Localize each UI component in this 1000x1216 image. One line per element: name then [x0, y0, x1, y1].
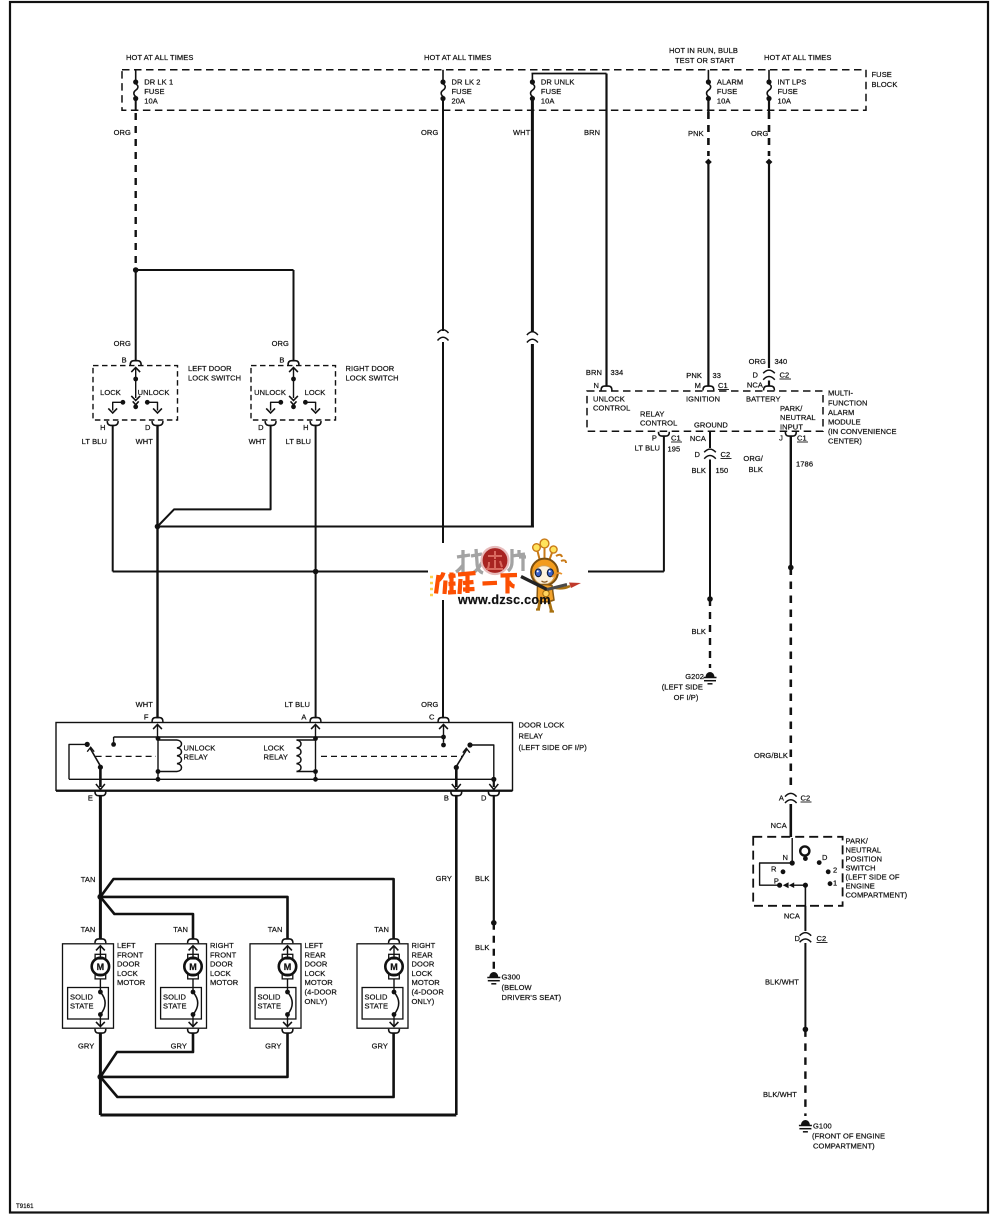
svg-text:WHT: WHT: [249, 437, 267, 446]
svg-text:BLK: BLK: [475, 874, 489, 883]
svg-text:FUSE: FUSE: [144, 87, 164, 96]
svg-text:TAN: TAN: [374, 925, 389, 934]
svg-text:1: 1: [833, 879, 837, 888]
svg-text:LT BLU: LT BLU: [635, 444, 660, 453]
svg-text:A: A: [779, 794, 784, 803]
svg-text:INT LPS: INT LPS: [778, 78, 807, 87]
svg-text:FUNCTION: FUNCTION: [828, 398, 868, 407]
svg-text:ALARM: ALARM: [828, 408, 854, 417]
svg-text:C1: C1: [671, 434, 681, 443]
svg-text:ORG: ORG: [751, 129, 768, 138]
svg-text:FUSE: FUSE: [778, 87, 798, 96]
svg-text:BLK: BLK: [692, 627, 706, 636]
svg-text:UNLOCK: UNLOCK: [254, 388, 286, 397]
svg-text:G202: G202: [685, 672, 704, 681]
svg-text:ORG/: ORG/: [743, 454, 763, 463]
svg-text:R: R: [771, 865, 777, 874]
svg-text:MOTOR: MOTOR: [412, 978, 441, 987]
svg-text:B: B: [122, 356, 127, 365]
svg-text:PNK: PNK: [686, 371, 702, 380]
svg-text:M: M: [284, 962, 292, 972]
svg-text:SOLID: SOLID: [365, 993, 388, 1002]
svg-text:M: M: [97, 962, 105, 972]
svg-text:RIGHT: RIGHT: [210, 941, 234, 950]
svg-text:NEUTRAL: NEUTRAL: [846, 846, 882, 855]
svg-text:(LEFT SIDE: (LEFT SIDE: [662, 683, 703, 692]
svg-text:BRN: BRN: [584, 128, 600, 137]
svg-text:P: P: [652, 434, 657, 443]
svg-text:CONTROL: CONTROL: [640, 419, 677, 428]
svg-text:20A: 20A: [452, 97, 466, 106]
svg-text:(FRONT OF ENGINE: (FRONT OF ENGINE: [812, 1132, 885, 1141]
svg-text:DOOR LOCK: DOOR LOCK: [519, 721, 565, 730]
svg-text:WHT: WHT: [513, 128, 531, 137]
svg-text:MOTOR: MOTOR: [210, 978, 239, 987]
svg-text:33: 33: [713, 371, 722, 380]
svg-text:RIGHT: RIGHT: [412, 941, 436, 950]
svg-text:COMPARTMENT): COMPARTMENT): [813, 1141, 875, 1150]
svg-text:REAR: REAR: [412, 950, 434, 959]
svg-text:CONTROL: CONTROL: [593, 404, 630, 413]
svg-text:150: 150: [716, 466, 729, 475]
svg-text:REAR: REAR: [305, 950, 327, 959]
svg-text:BRN: BRN: [586, 368, 602, 377]
svg-text:BLK: BLK: [692, 466, 706, 475]
svg-text:195: 195: [668, 445, 681, 454]
svg-text:LOCK: LOCK: [305, 969, 326, 978]
svg-text:TAN: TAN: [173, 925, 188, 934]
svg-text:(BELOW: (BELOW: [502, 983, 533, 992]
svg-text:C2: C2: [721, 450, 731, 459]
svg-text:N: N: [782, 853, 788, 862]
svg-text:10A: 10A: [778, 97, 792, 106]
svg-text:SOLID: SOLID: [163, 993, 186, 1002]
svg-text:FRONT: FRONT: [210, 950, 237, 959]
svg-text:LT BLU: LT BLU: [286, 437, 311, 446]
svg-text:FUSE: FUSE: [872, 70, 892, 79]
svg-text:340: 340: [775, 357, 788, 366]
svg-text:C2: C2: [801, 794, 811, 803]
svg-text:TAN: TAN: [81, 925, 96, 934]
svg-text:FRONT: FRONT: [117, 950, 144, 959]
svg-text:A: A: [301, 713, 306, 722]
svg-text:IGNITION: IGNITION: [686, 395, 720, 404]
svg-text:LOCK: LOCK: [264, 744, 285, 753]
svg-text:LOCK SWITCH: LOCK SWITCH: [188, 374, 241, 383]
svg-text:HOT AT ALL TIMES: HOT AT ALL TIMES: [126, 53, 193, 62]
svg-text:NCA: NCA: [771, 821, 787, 830]
svg-text:DRIVER'S SEAT): DRIVER'S SEAT): [502, 993, 562, 1002]
svg-text:E: E: [88, 794, 93, 803]
svg-text:STATE: STATE: [365, 1002, 389, 1011]
svg-text:LOCK: LOCK: [412, 969, 433, 978]
svg-text:D: D: [694, 450, 700, 459]
svg-text:FUSE: FUSE: [717, 87, 737, 96]
svg-text:GRY: GRY: [265, 1042, 281, 1051]
svg-text:HOT AT ALL TIMES: HOT AT ALL TIMES: [424, 53, 491, 62]
svg-text:(4-DOOR: (4-DOOR: [412, 988, 445, 997]
svg-text:RELAY: RELAY: [184, 753, 209, 762]
svg-text:ORG/BLK: ORG/BLK: [754, 751, 788, 760]
svg-text:NCA: NCA: [747, 381, 763, 390]
svg-text:UNLOCK: UNLOCK: [593, 395, 625, 404]
svg-text:WHT: WHT: [136, 700, 154, 709]
svg-text:NCA: NCA: [784, 912, 800, 921]
svg-text:D: D: [145, 423, 151, 432]
svg-text:DOOR: DOOR: [117, 960, 140, 969]
svg-text:TAN: TAN: [81, 875, 96, 884]
svg-text:RELAY: RELAY: [519, 732, 544, 741]
svg-text:SOLID: SOLID: [258, 993, 281, 1002]
svg-text:STATE: STATE: [163, 1002, 187, 1011]
svg-text:DR LK 2: DR LK 2: [452, 78, 481, 87]
svg-text:LEFT DOOR: LEFT DOOR: [188, 364, 232, 373]
svg-text:DOOR: DOOR: [412, 960, 435, 969]
svg-text:BLK/WHT: BLK/WHT: [765, 978, 799, 987]
svg-text:J: J: [779, 434, 783, 443]
svg-text:LEFT: LEFT: [305, 941, 324, 950]
svg-text:ENGINE: ENGINE: [846, 882, 875, 891]
svg-text:NCA: NCA: [690, 434, 706, 443]
svg-text:NEUTRAL: NEUTRAL: [780, 413, 816, 422]
svg-text:RELAY: RELAY: [640, 410, 665, 419]
svg-text:DOOR: DOOR: [305, 960, 328, 969]
svg-text:D: D: [258, 423, 264, 432]
svg-text:OF I/P): OF I/P): [674, 693, 699, 702]
svg-text:FUSE: FUSE: [541, 87, 561, 96]
svg-text:C: C: [429, 713, 435, 722]
svg-text:GRY: GRY: [78, 1042, 94, 1051]
svg-text:1786: 1786: [796, 460, 813, 469]
svg-text:D: D: [822, 853, 828, 862]
svg-text:(4-DOOR: (4-DOOR: [305, 988, 338, 997]
svg-text:PARK/: PARK/: [846, 837, 869, 846]
svg-text:TEST OR START: TEST OR START: [675, 56, 735, 65]
svg-text:STATE: STATE: [258, 1002, 282, 1011]
svg-text:LOCK: LOCK: [305, 388, 326, 397]
svg-text:334: 334: [611, 368, 624, 377]
svg-text:TAN: TAN: [268, 925, 283, 934]
svg-text:WHT: WHT: [136, 437, 154, 446]
svg-text:UNLOCK: UNLOCK: [184, 744, 216, 753]
svg-text:PARK/: PARK/: [780, 404, 803, 413]
svg-text:ORG: ORG: [421, 700, 438, 709]
svg-text:B: B: [279, 356, 284, 365]
svg-text:COMPARTMENT): COMPARTMENT): [846, 891, 908, 900]
svg-text:10A: 10A: [717, 97, 731, 106]
svg-text:ORG: ORG: [272, 339, 289, 348]
svg-text:LOCK: LOCK: [117, 969, 138, 978]
svg-text:C2: C2: [780, 371, 790, 380]
svg-text:ORG: ORG: [749, 357, 766, 366]
svg-text:ORG: ORG: [114, 339, 131, 348]
svg-text:LOCK: LOCK: [100, 388, 121, 397]
svg-text:LOCK SWITCH: LOCK SWITCH: [346, 374, 399, 383]
svg-text:ONLY): ONLY): [412, 997, 435, 1006]
svg-text:RIGHT DOOR: RIGHT DOOR: [346, 364, 395, 373]
svg-text:F: F: [144, 713, 149, 722]
svg-text:H: H: [100, 423, 106, 432]
svg-text:C1: C1: [797, 434, 807, 443]
svg-text:(LEFT SIDE OF I/P): (LEFT SIDE OF I/P): [519, 743, 588, 752]
svg-text:BLK: BLK: [475, 943, 489, 952]
svg-text:10A: 10A: [541, 97, 555, 106]
svg-text:MOTOR: MOTOR: [305, 978, 334, 987]
svg-text:T9161: T9161: [16, 1204, 34, 1210]
svg-text:RELAY: RELAY: [264, 753, 289, 762]
svg-text:MULTI-: MULTI-: [828, 389, 853, 398]
svg-text:G300: G300: [502, 973, 521, 982]
svg-text:BLK: BLK: [749, 465, 763, 474]
svg-text:LT BLU: LT BLU: [82, 437, 107, 446]
svg-text:C2: C2: [817, 934, 827, 943]
svg-text:LEFT: LEFT: [117, 941, 136, 950]
svg-text:DR UNLK: DR UNLK: [541, 78, 575, 87]
svg-text:ONLY): ONLY): [305, 997, 328, 1006]
svg-text:LOCK: LOCK: [210, 969, 231, 978]
svg-text:GRY: GRY: [171, 1042, 187, 1051]
svg-text:GRY: GRY: [436, 874, 452, 883]
svg-text:2: 2: [833, 866, 837, 875]
svg-text:(LEFT SIDE OF: (LEFT SIDE OF: [846, 873, 900, 882]
svg-text:www.dzsc.com: www.dzsc.com: [457, 593, 551, 607]
svg-text:BLOCK: BLOCK: [872, 80, 898, 89]
svg-text:INPUT: INPUT: [780, 422, 803, 431]
svg-text:STATE: STATE: [70, 1002, 94, 1011]
svg-text:(IN CONVENIENCE: (IN CONVENIENCE: [828, 427, 897, 436]
svg-text:MOTOR: MOTOR: [117, 978, 146, 987]
svg-text:B: B: [444, 794, 449, 803]
svg-text:ORG: ORG: [114, 128, 131, 137]
svg-text:CENTER): CENTER): [828, 437, 862, 446]
svg-text:HOT IN RUN, BULB: HOT IN RUN, BULB: [669, 46, 738, 55]
svg-text:BLK/WHT: BLK/WHT: [763, 1090, 797, 1099]
svg-text:PNK: PNK: [688, 129, 704, 138]
svg-text:C1: C1: [718, 381, 728, 390]
svg-text:ALARM: ALARM: [717, 78, 743, 87]
svg-text:SWITCH: SWITCH: [846, 864, 876, 873]
svg-text:UNLOCK: UNLOCK: [138, 388, 170, 397]
svg-text:H: H: [303, 423, 309, 432]
svg-text:G100: G100: [813, 1122, 832, 1131]
svg-text:DOOR: DOOR: [210, 960, 233, 969]
svg-text:ORG: ORG: [421, 128, 438, 137]
svg-text:FUSE: FUSE: [452, 87, 472, 96]
svg-text:BATTERY: BATTERY: [746, 395, 781, 404]
svg-text:D: D: [794, 934, 800, 943]
svg-text:DR LK 1: DR LK 1: [144, 78, 173, 87]
svg-text:D: D: [752, 371, 758, 380]
svg-text:M: M: [390, 962, 398, 972]
svg-text:GRY: GRY: [372, 1042, 388, 1051]
svg-text:POSITION: POSITION: [846, 855, 883, 864]
svg-text:N: N: [593, 381, 599, 390]
svg-text:10A: 10A: [144, 97, 158, 106]
svg-text:M: M: [695, 381, 701, 390]
svg-text:SOLID: SOLID: [70, 993, 93, 1002]
svg-text:GROUND: GROUND: [694, 420, 728, 429]
svg-text:HOT AT ALL TIMES: HOT AT ALL TIMES: [764, 53, 831, 62]
svg-text:D: D: [481, 794, 487, 803]
svg-text:MODULE: MODULE: [828, 418, 861, 427]
svg-text:M: M: [189, 962, 197, 972]
svg-text:LT BLU: LT BLU: [285, 700, 310, 709]
